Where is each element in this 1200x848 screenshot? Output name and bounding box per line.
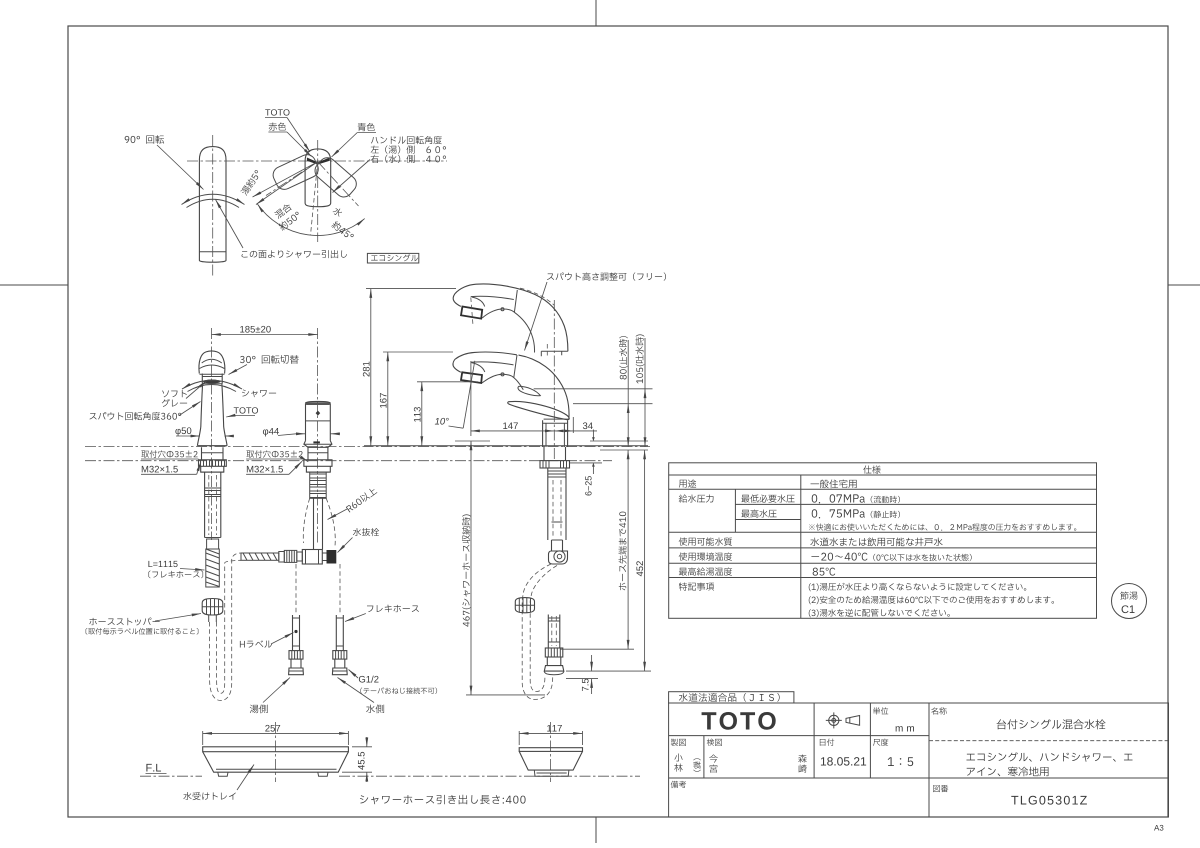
leader to right ghost	[333, 160, 371, 193]
right base body	[519, 748, 582, 752]
ghost underside	[482, 309, 534, 353]
handle side view pill	[199, 147, 226, 263]
setsuyu C1 mark	[1112, 584, 1147, 619]
name cell	[997, 719, 1106, 729]
label mizu-gawa	[366, 704, 384, 713]
ghost neck drop lines	[541, 351, 568, 356]
below deck flange	[540, 461, 570, 468]
shower connector tube	[548, 615, 560, 649]
drawing number	[1011, 796, 1087, 805]
hose dashed from elbow	[522, 564, 553, 700]
raised spout ghost top sweep	[455, 284, 568, 351]
shank-coil connector	[207, 539, 219, 549]
date & scale	[821, 757, 866, 765]
ref line 450	[600, 449, 648, 451]
top view handle center pill	[305, 149, 331, 207]
label L=1115	[148, 561, 177, 567]
ghost handle left	[270, 152, 321, 192]
lowered spout top outline	[455, 352, 569, 419]
names	[674, 753, 682, 761]
label hose stopper	[89, 618, 159, 626]
cold supply hose	[336, 615, 343, 651]
TOTO label	[265, 109, 289, 115]
pivot vertical centerline	[317, 140, 319, 242]
dashed feeds to supply hoses	[295, 564, 297, 614]
eco single box	[367, 253, 418, 263]
dim phi50	[175, 427, 191, 436]
deck dashdot line lower	[85, 460, 612, 462]
left nut	[201, 466, 224, 472]
right shank hatched	[310, 472, 327, 498]
left shank	[205, 472, 221, 537]
tray body	[203, 747, 349, 752]
horizontal dashdot to top view	[187, 160, 447, 162]
hose fittings to valve	[279, 552, 285, 563]
10 deg	[435, 418, 449, 425]
cold fitting	[333, 651, 347, 660]
right nut	[306, 466, 330, 472]
blue label	[358, 123, 375, 131]
shower connector nut	[545, 648, 563, 657]
right base centerline	[550, 722, 552, 782]
tray feet	[218, 772, 328, 776]
dim 105 tosui	[644, 389, 646, 447]
handle unit body	[306, 403, 331, 441]
ghost handle right	[312, 154, 360, 200]
title block small labels	[873, 707, 888, 714]
spout unit centerline	[211, 328, 213, 540]
label 90 kaiten	[125, 135, 164, 144]
hot fitting	[289, 651, 303, 660]
spout head dome	[199, 351, 225, 374]
spec table column lines	[800, 475, 802, 618]
side view centerline	[553, 300, 555, 460]
black dash on skirt	[313, 441, 320, 443]
projection symbol circle	[829, 715, 839, 725]
label soft gray	[162, 390, 187, 397]
ghost seam	[514, 290, 517, 312]
dim 185±20	[212, 334, 318, 336]
label M32 right	[247, 466, 283, 473]
dim 257	[203, 732, 349, 734]
label G1/2	[359, 676, 379, 683]
dim 45.5	[352, 746, 372, 748]
handle unit centerline	[317, 328, 319, 545]
dim 167	[387, 352, 389, 446]
ghost nose axis	[471, 298, 473, 326]
spout base bell	[197, 427, 227, 446]
ghost nose block	[461, 307, 482, 319]
handle skirt	[304, 441, 332, 448]
tray centerline	[274, 722, 276, 782]
spec table texts	[863, 465, 880, 473]
label R60	[345, 486, 377, 513]
label TOTO on body	[234, 407, 258, 413]
outlet level ext lines	[534, 388, 653, 390]
title block outer	[669, 703, 1169, 817]
dim 281	[370, 289, 372, 446]
lowered seam	[514, 355, 517, 378]
ghost head cap arc	[472, 297, 485, 307]
dim hose tip 410	[627, 450, 629, 649]
rotation arc arrows over head	[182, 380, 242, 389]
indicator wedge	[307, 158, 330, 165]
shower connector flare	[544, 666, 564, 672]
big rotation arc	[257, 204, 364, 236]
sheet size	[1154, 825, 1163, 831]
ghost inner ridge	[471, 296, 514, 299]
horizontal hose hatched	[241, 553, 279, 560]
spec table row lines	[669, 474, 1097, 476]
axis dashdot right	[318, 162, 359, 206]
mix 50 label	[274, 202, 293, 219]
shank tube	[548, 468, 566, 540]
dim phi44	[263, 428, 279, 437]
label spout rotation 360	[90, 412, 182, 420]
lowered underside	[482, 374, 523, 390]
label shower hose pull length	[360, 795, 526, 805]
right escutcheon below deck	[308, 447, 328, 460]
lowered nose block	[461, 372, 482, 383]
label yu-gawa	[250, 704, 268, 713]
water 45 label	[332, 206, 343, 217]
handle unit cap	[306, 402, 331, 405]
dim 7.5	[591, 655, 593, 671]
label kono men	[242, 250, 347, 258]
water drain valve body	[302, 550, 322, 565]
lever main blade	[508, 401, 570, 419]
base column	[543, 420, 568, 447]
sheet center mark top	[595, 0, 597, 26]
yu 5deg dim lines	[253, 162, 318, 197]
label toritsuke-ana right	[246, 450, 302, 458]
label shower	[242, 389, 276, 397]
label H label	[240, 640, 272, 647]
handle angle text	[371, 136, 442, 144]
projection symbol cone	[846, 716, 860, 726]
dim 113	[421, 382, 423, 446]
rotation arc arrows on pill	[182, 194, 245, 204]
lowered left beak	[453, 360, 461, 373]
tube below stopper	[209, 615, 217, 622]
left escutcheon below deck	[202, 447, 224, 460]
ghost left beak	[453, 294, 461, 307]
dashed hose loop	[210, 553, 241, 701]
left flex hose coil	[206, 549, 220, 587]
title block lines	[669, 735, 929, 737]
label M32 left	[142, 466, 178, 473]
dim 6~25	[570, 462, 602, 464]
lowered head cap arc	[472, 363, 485, 372]
spec table outer	[669, 463, 1097, 619]
handle centerline	[212, 135, 214, 278]
hot supply hose	[293, 615, 300, 651]
dim 117	[519, 732, 582, 734]
label mizunuki	[353, 528, 379, 536]
sheet center mark left	[0, 284, 68, 286]
dim 80 shisui	[627, 404, 629, 447]
dim 467	[470, 441, 472, 695]
right base foot	[534, 770, 569, 776]
label toritsuke-ana left	[141, 450, 197, 458]
dim 147	[471, 430, 555, 432]
dim 452	[644, 450, 646, 671]
sheet center mark bottom	[595, 817, 597, 843]
radial dashed to arc bottom	[311, 162, 318, 236]
axis dashdot left	[266, 162, 318, 196]
drain plug black	[327, 550, 337, 564]
dim 34	[554, 430, 573, 432]
lever small leaf	[518, 386, 540, 395]
lowered inner ridge	[471, 362, 514, 365]
diamond mark	[316, 411, 321, 416]
label spout height adjustable	[547, 272, 666, 280]
spout head cylinder	[202, 374, 222, 384]
elbow valve	[549, 540, 568, 564]
left nut flange	[199, 460, 227, 467]
red label	[269, 122, 286, 130]
label mizuuke tray	[183, 792, 235, 800]
F.L line	[140, 775, 202, 777]
sheet center mark right	[1168, 284, 1200, 286]
TOTO logo	[702, 712, 776, 730]
JIS tab	[669, 692, 794, 703]
vertical pipe to valve	[314, 498, 323, 549]
stopper ball on hose	[515, 598, 534, 613]
left shank inner dashed	[209, 475, 217, 535]
ghost dashed arc	[520, 288, 555, 305]
spray face dark ellipse	[203, 380, 221, 384]
deck dashdot line upper	[85, 446, 650, 448]
hose stopper ball	[202, 599, 223, 616]
right nut flange	[304, 460, 332, 467]
label 30 kaiten	[240, 355, 299, 364]
deck solid line	[364, 445, 648, 447]
R60 envelope dashed	[303, 498, 309, 543]
label flex hose	[367, 605, 419, 613]
ref line 441	[455, 440, 490, 442]
spout body	[201, 384, 224, 427]
